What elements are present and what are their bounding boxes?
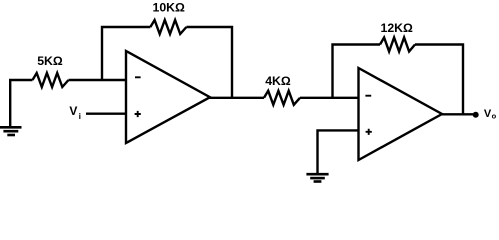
svg-text:V: V bbox=[69, 104, 77, 118]
svg-text:5KΩ: 5KΩ bbox=[37, 54, 63, 68]
svg-text:4KΩ: 4KΩ bbox=[265, 74, 291, 88]
svg-text:12KΩ: 12KΩ bbox=[380, 21, 413, 35]
svg-text:10KΩ: 10KΩ bbox=[152, 0, 185, 14]
svg-text:o: o bbox=[492, 111, 497, 120]
svg-text:i: i bbox=[79, 111, 81, 121]
